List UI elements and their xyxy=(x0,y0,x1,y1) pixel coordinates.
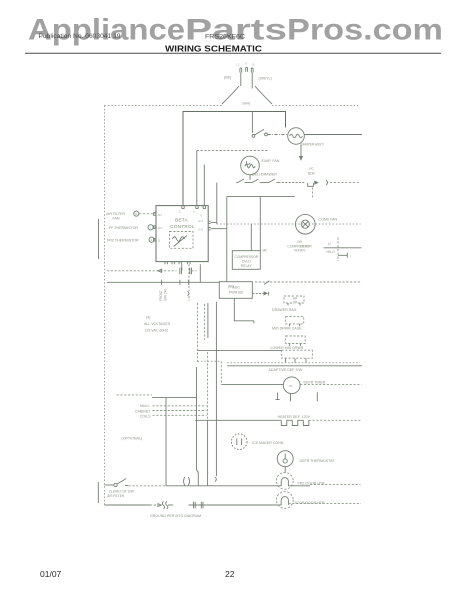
FRZ thermistor terminal 2 xyxy=(149,237,154,242)
wire to door switch xyxy=(251,112,253,133)
cabinet outline top dashed right xyxy=(272,106,359,109)
label compressor w fan xyxy=(287,240,312,253)
wire drop to compressor box b xyxy=(259,197,261,251)
svg-text:COILS: COILS xyxy=(140,415,151,419)
label compressor relay xyxy=(234,255,258,268)
svg-text:6: 6 xyxy=(201,214,203,218)
wire bus x227 xyxy=(226,197,228,282)
label beta control xyxy=(170,217,195,229)
wire row y486 left xyxy=(166,485,281,487)
label bracket thermistors xyxy=(98,219,100,259)
door switch 1 xyxy=(236,179,246,183)
power cord plug prongs xyxy=(240,67,253,72)
wire bus x216 lower xyxy=(215,477,216,481)
run capacitor line xyxy=(324,247,362,249)
heater loop 1 shield xyxy=(276,472,293,489)
pins top edge xyxy=(182,206,206,209)
cabinet bottom wire xyxy=(105,504,151,506)
wire dashed drop xyxy=(312,188,314,198)
header rule xyxy=(25,52,441,54)
wire y196 xyxy=(227,196,295,198)
wire timer feed xyxy=(221,383,283,385)
svg-text:W.FAN: W.FAN xyxy=(294,249,305,253)
wire bus x216 xyxy=(215,302,217,477)
svg-text:CONTROL: CONTROL xyxy=(170,224,195,229)
cabinet outline left dashed xyxy=(104,106,106,506)
mullion dashed wires xyxy=(153,406,207,416)
aux power board xyxy=(219,282,252,299)
inline connector on row xyxy=(184,477,190,485)
svg-text:BETA: BETA xyxy=(175,217,188,222)
wire to frz light xyxy=(203,165,205,206)
stub right pin to x227 xyxy=(211,228,227,230)
plug pin labels xyxy=(237,62,255,67)
defrost thermostat xyxy=(277,451,293,467)
svg-text:J1: J1 xyxy=(158,239,161,243)
heater loop 1 xyxy=(281,478,288,486)
svg-text:4: 4 xyxy=(193,210,195,214)
FF door switch xyxy=(252,129,267,137)
label bracket switch xyxy=(97,482,99,503)
wire arrow right xyxy=(279,181,318,184)
svg-text:(OPTIONAL): (OPTIONAL) xyxy=(122,436,143,440)
svg-text:DELI DRAWER: DELI DRAWER xyxy=(252,173,277,177)
beta control board U1 xyxy=(156,206,208,262)
svg-text:HILO: HILO xyxy=(327,250,336,254)
air filter fan motor symbol xyxy=(134,211,139,216)
svg-text:MULL.: MULL. xyxy=(140,404,151,408)
FF thermistor terminal 1 xyxy=(148,225,153,230)
wire bus x166 xyxy=(165,398,167,486)
svg-text:J2-3: J2-3 xyxy=(198,228,204,232)
wire damper to right xyxy=(304,134,362,136)
pins left edge xyxy=(154,213,156,241)
wire switch stub xyxy=(105,484,114,486)
svg-text:MID DRWR CASE: MID DRWR CASE xyxy=(272,326,302,330)
dashed stub near compressor xyxy=(302,245,310,247)
wire arrow from aux board xyxy=(252,292,268,296)
svg-text:FRS26KF6C: FRS26KF6C xyxy=(205,34,245,41)
svg-text:(4): (4) xyxy=(146,316,150,320)
svg-text:M: M xyxy=(135,212,137,216)
svg-text:MC: MC xyxy=(263,249,269,253)
pin labels left xyxy=(158,213,163,243)
solid row y366 xyxy=(227,365,362,367)
cord strain relief bell right xyxy=(255,86,272,104)
wire dashed drop x189 with connector xyxy=(188,282,189,301)
wire dashed switch to bus xyxy=(129,485,166,487)
svg-text:GROUND PER MTG DIAGRAM: GROUND PER MTG DIAGRAM xyxy=(150,514,201,518)
svg-text:BLW: BLW xyxy=(308,172,315,176)
condenser fan motor xyxy=(296,214,316,234)
door switch 3 xyxy=(267,179,278,183)
dashed stub y271 xyxy=(192,270,197,272)
svg-text:AIR FILTER: AIR FILTER xyxy=(106,212,126,216)
capacitor stub xyxy=(338,253,352,258)
svg-text:EVAP. FAN: EVAP. FAN xyxy=(262,159,280,163)
wire dash to damper xyxy=(268,134,288,136)
cord strain relief bell left xyxy=(222,86,239,104)
wire dashed therm2 to board xyxy=(154,239,156,241)
svg-text:J10: J10 xyxy=(158,226,163,230)
svg-text:+: + xyxy=(350,255,352,258)
label mullion coils xyxy=(135,404,151,419)
switch row base wire xyxy=(246,182,267,184)
svg-text:OH: OH xyxy=(297,240,303,244)
wire line cord right xyxy=(251,73,253,89)
wire light to switch row xyxy=(249,175,251,180)
wire bus x213 xyxy=(207,352,209,420)
wire dashed heater right xyxy=(309,419,362,421)
mullion solid line xyxy=(152,397,197,399)
wire bus x207 lower xyxy=(207,420,209,486)
svg-text:DEFR TIMER: DEFR TIMER xyxy=(304,380,326,384)
svg-text:LOWER MID DRWR: LOWER MID DRWR xyxy=(271,346,304,350)
svg-text:FROST: FROST xyxy=(159,290,163,301)
pins bottom edge xyxy=(165,262,190,265)
connector box C xyxy=(286,336,306,346)
connector arc xyxy=(326,180,327,185)
svg-text:FRZ DOOR HTR: FRZ DOOR HTR xyxy=(298,481,326,485)
svg-text:DAMPER ASS'Y: DAMPER ASS'Y xyxy=(301,142,325,146)
connector pair on bottom wire xyxy=(194,502,204,509)
svg-text:PWR BD: PWR BD xyxy=(229,291,244,295)
wire board drop C xyxy=(199,264,201,282)
door switch 2 xyxy=(251,179,262,183)
label aux board xyxy=(229,285,244,294)
svg-text:ADC: ADC xyxy=(232,285,240,289)
svg-text:COMPRESSOR: COMPRESSOR xyxy=(234,255,258,259)
label air filter fan xyxy=(106,212,126,221)
wire bottom row dashed right xyxy=(288,502,361,504)
stub right pin to x217 xyxy=(211,221,217,223)
svg-text:TM: TM xyxy=(289,384,293,388)
wire y350 to connector xyxy=(198,349,282,351)
air flow arrow xyxy=(300,145,303,160)
svg-text:S/W 240: S/W 240 xyxy=(164,289,168,301)
svg-text:ICE MAKER CONN: ICE MAKER CONN xyxy=(252,441,284,445)
wire dashed drop to timer xyxy=(220,361,222,384)
wire dashed timer right xyxy=(300,384,361,386)
svg-text:WIRING SCHEMATIC: WIRING SCHEMATIC xyxy=(165,45,262,54)
pin labels right xyxy=(198,219,204,232)
beta control inner dashed block xyxy=(170,232,194,249)
svg-text:L1: L1 xyxy=(237,63,240,67)
svg-text:AppliancePartsPros.com: AppliancePartsPros.com xyxy=(28,14,443,47)
wire dotted segment to corner xyxy=(198,360,222,362)
svg-text:FF THERMISTOR: FF THERMISTOR xyxy=(109,226,138,230)
wire dashed x338 xyxy=(337,238,339,262)
svg-text:J2-1: J2-1 xyxy=(198,219,204,223)
wire dashed fan to board xyxy=(139,213,156,215)
svg-text:OVLD: OVLD xyxy=(242,259,252,263)
freezer box corner wire xyxy=(196,151,198,206)
svg-text:HEATER DEF. 120V: HEATER DEF. 120V xyxy=(278,415,311,419)
svg-text:CABINET: CABINET xyxy=(135,409,151,413)
connector box D xyxy=(281,350,312,363)
label FC BLW xyxy=(308,167,315,176)
plug connector below row xyxy=(308,183,314,186)
wire bus x208 upper xyxy=(207,303,209,338)
wire dashed bus x205 xyxy=(204,304,206,340)
dotted row y224 xyxy=(217,223,361,225)
freezer top dashed wire xyxy=(197,150,268,152)
svg-text:CLEAN CUT S/W: CLEAN CUT S/W xyxy=(109,490,134,494)
defrost timer motor xyxy=(283,377,300,394)
mullion dashed lead xyxy=(117,394,152,396)
svg-text:RELAY: RELAY xyxy=(241,264,252,268)
svg-text:(BK): (BK) xyxy=(224,76,231,80)
note text block xyxy=(144,316,171,333)
compressor overload relay box xyxy=(232,251,260,270)
switch on row y282 xyxy=(264,281,270,285)
label clean cut sw xyxy=(107,490,134,498)
wire bus x199 xyxy=(197,367,199,486)
damper assembly coil xyxy=(288,128,305,145)
heater loop 2 shield xyxy=(276,492,293,509)
timer contacts xyxy=(276,392,318,401)
svg-text:ALL VOLTAGES: ALL VOLTAGES xyxy=(144,322,171,326)
wire drop to compressor box a xyxy=(250,224,252,251)
svg-text:2: 2 xyxy=(151,238,153,242)
wire row y486 right xyxy=(288,485,310,487)
ice maker connector xyxy=(231,434,247,450)
wire board drop A xyxy=(181,264,183,271)
svg-text:Publication No. 0603041 19: Publication No. 0603041 19 xyxy=(39,33,121,40)
svg-text:J14: J14 xyxy=(158,213,163,217)
svg-text:115 VAC 60HZ: 115 VAC 60HZ xyxy=(145,329,169,333)
wire board drop B dashed xyxy=(188,264,190,282)
connector pair b on y271 xyxy=(190,268,192,275)
defrost heater line xyxy=(195,419,281,421)
cabinet outline top dashed left xyxy=(105,105,223,107)
wire line cord left xyxy=(240,73,242,87)
clean cut switch xyxy=(114,479,128,487)
svg-text:FC: FC xyxy=(310,167,315,171)
connector box A xyxy=(284,296,304,305)
solid row y282 xyxy=(107,280,219,285)
wire dashed therm1 to board xyxy=(153,226,156,228)
svg-text:G: G xyxy=(245,62,247,66)
svg-text:1: 1 xyxy=(150,226,152,230)
dashed row y271 with left arrow xyxy=(107,269,177,272)
svg-text:ADAPTIVE DEF S/W: ADAPTIVE DEF S/W xyxy=(269,368,303,372)
freezer light xyxy=(241,156,260,175)
svg-text:N: N xyxy=(253,63,255,67)
svg-text:FAN: FAN xyxy=(113,216,120,220)
svg-text:2: 2 xyxy=(179,210,181,214)
svg-text:01/07: 01/07 xyxy=(40,569,62,579)
wire aux drop and tee xyxy=(234,298,254,323)
dotted row y363 xyxy=(227,362,360,364)
svg-text:STOR DOOR HTR: STOR DOOR HTR xyxy=(295,501,325,505)
pins right edge xyxy=(208,221,210,230)
fresh food box outline xyxy=(183,112,286,206)
svg-text:(GN/YL): (GN/YL) xyxy=(259,77,272,81)
wire drop x217 xyxy=(216,183,218,224)
svg-text:U: U xyxy=(328,242,331,246)
svg-text:COND FAN: COND FAN xyxy=(319,218,338,222)
wire row y486 dashed xyxy=(310,484,361,486)
label frost sw rotated xyxy=(159,289,168,301)
svg-text:AIR FILTER: AIR FILTER xyxy=(107,494,125,498)
pin labels top xyxy=(179,210,203,218)
defrost heater element xyxy=(281,420,309,425)
svg-text:DEFR THERMOSTAT: DEFR THERMOSTAT xyxy=(300,459,336,463)
wire dashed to right edge xyxy=(330,182,359,184)
wire dashed bus x197 upper xyxy=(197,303,199,362)
wire thermostat link xyxy=(284,467,286,473)
svg-text:DRAWER RAIL: DRAWER RAIL xyxy=(272,308,297,312)
dashed row y282 right xyxy=(255,281,362,283)
svg-text:22: 22 xyxy=(225,569,235,579)
svg-text:FRZ THERMISTOR: FRZ THERMISTOR xyxy=(107,239,139,243)
heater loop 2 xyxy=(281,497,288,505)
svg-text:(WH): (WH) xyxy=(243,102,250,106)
connector pair a on y271 xyxy=(180,268,182,275)
connector box B xyxy=(286,316,304,326)
